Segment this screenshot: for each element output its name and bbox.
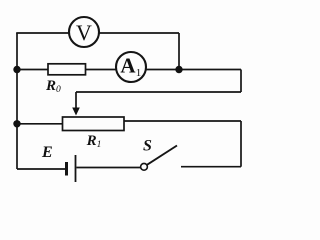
switch S lever — [147, 146, 177, 165]
voltmeter V — [69, 17, 99, 47]
wire node to R1 — [17, 123, 63, 125]
svg-text:1: 1 — [136, 67, 142, 79]
wire bottom left — [17, 168, 65, 170]
battery negative plate short — [65, 162, 68, 176]
wire right vertical upper — [178, 33, 180, 70]
wire voltmeter to right corner — [99, 32, 179, 34]
wire battery to switch — [77, 167, 141, 169]
battery positive plate long — [75, 155, 77, 182]
wire slider arrow stem — [75, 92, 77, 110]
resistor R0 — [48, 64, 86, 75]
node left lower — [13, 120, 20, 127]
wire left vertical — [16, 33, 18, 169]
wire R0 to ammeter — [86, 69, 117, 71]
wire right vertical row2 to row3 — [240, 70, 242, 93]
wire ammeter to right edge — [146, 69, 241, 71]
ammeter A1 — [116, 52, 146, 82]
wire right vertical lower — [240, 121, 242, 167]
svg-text:V: V — [76, 20, 92, 45]
switch S pivot — [141, 163, 148, 170]
svg-text:S: S — [143, 138, 152, 155]
wire top left to voltmeter — [16, 32, 69, 34]
wire R1 to right edge — [124, 120, 241, 122]
node mid junction — [175, 66, 182, 73]
wire bottom right — [181, 166, 241, 168]
slider arrowhead — [72, 108, 80, 116]
svg-text:E: E — [41, 144, 53, 161]
rheostat R1 — [63, 117, 125, 131]
svg-text:A: A — [120, 54, 136, 78]
wire row3 slider feed — [76, 91, 241, 93]
node left upper — [13, 66, 20, 73]
wire node to R0 — [17, 69, 48, 71]
